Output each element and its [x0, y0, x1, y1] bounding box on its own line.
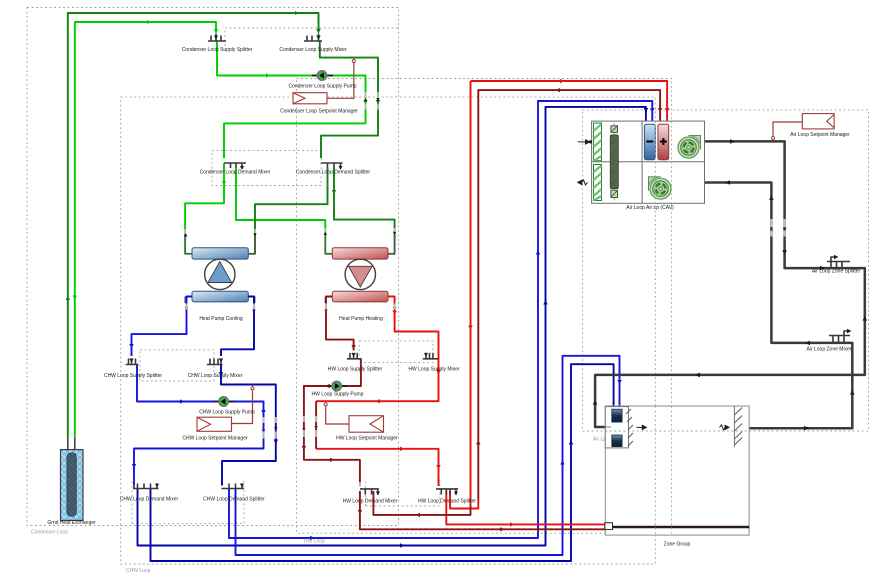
dashed overlays crossing white boxes [605, 121, 749, 535]
zone internal return arrow (zigzag) [720, 425, 730, 430]
hw demand inner dashed box [366, 479, 440, 506]
svg-text:Air Loop Air Lp (CAV): Air Loop Air Lp (CAV) [626, 205, 674, 211]
wire: condenser bright green splitter-pump-crossover-demand-mixer [217, 41, 366, 158]
zone reheat coil box [605, 523, 613, 530]
AHU heating coil [658, 124, 669, 160]
hw loop supply pump (flow right) [332, 381, 342, 391]
AHU inlet arrow [578, 140, 592, 144]
AHU cooling coil [644, 124, 655, 160]
wire: hw column B to demand splitter [315, 401, 317, 449]
condenser loop demand mixer glyph [224, 163, 246, 168]
hw loop setpoint manager connector [326, 405, 349, 424]
wire: hw demand mixer main down to zone coil return [360, 491, 605, 529]
air loop setpoint manager connector [773, 122, 802, 137]
CHW2 [304, 81, 667, 529]
svg-text:Condenser Loop Demand Splitter: Condenser Loop Demand Splitter [296, 170, 371, 176]
svg-text:Condenser Loop Supply Pump: Condenser Loop Supply Pump [288, 84, 356, 90]
svg-text:HW Loop Setpoint Manager: HW Loop Setpoint Manager [336, 436, 398, 442]
node gray segments on air ducts [771, 219, 784, 237]
svg-text:CHW Loop Supply Mixer: CHW Loop Supply Mixer [188, 373, 243, 379]
hw supply inner dashed box [359, 341, 433, 363]
hw loop supply mixer glyph [423, 353, 439, 359]
svg-text:Grnd Heat Exchanger: Grnd Heat Exchanger [47, 520, 96, 526]
heat pump cooling [185, 234, 255, 303]
AHU relief damper (bottom) [594, 165, 602, 201]
node arrows on crossover columns [184, 98, 786, 430]
AHU return fan (mirrored) [648, 177, 671, 200]
svg-text:Air Loop Zone Splitter: Air Loop Zone Splitter [812, 269, 861, 275]
wire: chw navy HP-cooling-right to supply mixer [221, 297, 254, 357]
chw loop demand splitter glyph [222, 484, 245, 489]
duct: supply from AHU to zone splitter to terminal [595, 141, 865, 427]
node gray segments on chw verticals [187, 304, 276, 439]
wire: condenser bright green supply-to-HX [75, 22, 216, 438]
condenser demand inner dashed box [212, 150, 321, 185]
wire: hw bright red HP-heating-right through supply mixer to crossover [316, 297, 438, 402]
svg-text:CHW Loop Supply Splitter: CHW Loop Supply Splitter [104, 373, 162, 379]
svg-text:HW Loop Supply Pump: HW Loop Supply Pump [312, 392, 364, 398]
duct: return from zone to zone mixer to AHU [705, 183, 853, 429]
heat pump heating [325, 234, 394, 303]
svg-text:Zone Group: Zone Group [664, 542, 691, 548]
wire: condenser demand splitter branch to HP-cooling right [248, 168, 327, 254]
wire: hw dark red HP-heating-left to supply splitter [326, 297, 354, 351]
zone hatch top-right corner [734, 408, 742, 446]
svg-text:Condenser Loop Demand Mixer: Condenser Loop Demand Mixer [200, 170, 271, 176]
svg-text:Heat Pump Heating: Heat Pump Heating [339, 316, 383, 322]
arrows on condenser wires [73, 20, 368, 300]
wire: hw return from AHU heating coil upper [471, 81, 668, 505]
arrows on chw wires [129, 108, 654, 540]
condenser loop supply mixer glyph [304, 34, 322, 42]
AHU supply fan [678, 135, 701, 158]
hw loop supply pump black segment [327, 385, 347, 387]
svg-text:Air Loop Setpoint Manager: Air Loop Setpoint Manager [790, 132, 850, 138]
air loop zone mixer glyph [829, 331, 850, 343]
wire: chw navy supply-mixer to demand splitter [221, 365, 276, 486]
wire: chw bright blue HP-cooling-left to supply splitter [132, 297, 193, 357]
hw loop dashed boundary [297, 79, 672, 534]
svg-text:HW Loop Demand Splitter: HW Loop Demand Splitter [418, 499, 476, 505]
air loop zone splitter glyph [827, 257, 850, 268]
chw loop setpoint manager box [197, 417, 232, 431]
hw loop setpoint manager box [349, 416, 384, 433]
wire: hw dark red pump line and column A to demand mixer [304, 359, 361, 486]
zone terminal unit (air terminal) [605, 407, 633, 448]
zone group box [605, 406, 749, 535]
condenser loop dashed boundary [27, 8, 399, 526]
hw loop demand mixer glyph [360, 489, 379, 495]
chw supply inner dashed box [140, 350, 214, 381]
chw loop setpoint manager connector [232, 389, 253, 424]
node gray segments on hw verticals [304, 304, 395, 487]
svg-text:Heat Pump Cooling: Heat Pump Cooling [199, 316, 243, 322]
wire: condenser demand mixer branch to HP-heating left [236, 168, 332, 254]
wire: condenser dark green supply-mixer-to-demand-splitter [320, 41, 378, 158]
chw loop supply splitter glyph [126, 359, 139, 365]
svg-text:Condenser Loop Supply Splitter: Condenser Loop Supply Splitter [182, 47, 253, 53]
chw demand inner dashed box [132, 479, 244, 524]
arrows on hw wires [302, 88, 663, 532]
hw loop demand splitter glyph [436, 489, 458, 495]
svg-text:HW Loop: HW Loop [304, 539, 325, 545]
svg-text:HW Loop Supply Splitter: HW Loop Supply Splitter [328, 367, 383, 373]
node gray segments on condenser crossover verticals [185, 92, 395, 234]
condenser loop supply splitter glyph [208, 34, 226, 42]
chw loop supply pump [219, 397, 229, 407]
hw loop supply splitter glyph [347, 353, 362, 359]
condenser loop setpoint manager connector [327, 62, 354, 99]
svg-text:HW Loop Demand Mixer: HW Loop Demand Mixer [343, 499, 398, 505]
svg-text:CHW Loop Demand Splitter: CHW Loop Demand Splitter [203, 497, 265, 503]
wire: condenser dark green HX-to-supply-mixer [68, 13, 319, 438]
condenser supply inner dashed box [225, 28, 399, 46]
ground heat exchanger [61, 450, 84, 521]
svg-text:CHW Loop Supply Pump: CHW Loop Supply Pump [199, 410, 255, 416]
air loop dashed boundary [583, 110, 869, 431]
arrows on ducts [593, 139, 867, 430]
svg-text:Condenser Loop: Condenser Loop [31, 530, 68, 536]
wire: chw demand splitter branch to AHU cooling coil [229, 101, 652, 538]
condenser loop supply pump black line segment [312, 75, 333, 77]
wire: chw return from AHU cooling coil to demand mixer [138, 107, 646, 546]
air loop setpoint manager box [802, 114, 834, 129]
chw loop supply pump black segment [214, 401, 234, 403]
svg-text:CHW Loop Setpoint Manager: CHW Loop Setpoint Manager [182, 436, 248, 442]
wire: chw bright blue splitter-pump-crossover to demand mixer [134, 365, 264, 486]
AHU relief arrow (zigzag) [578, 180, 588, 185]
wire: chw return from zone terminal coil to demand mixer [151, 364, 614, 561]
wire: hw return from AHU heating coil lower to demand mixer [373, 491, 470, 515]
wire: hw demand splitter branch to zone reheat coil [446, 491, 605, 524]
wire: hw demand splitter branch to AHU heating coil (riser) [450, 491, 478, 509]
chw loop supply mixer glyph [207, 359, 223, 365]
AHU (air handling unit) [592, 121, 705, 203]
CONDENSER2 [132, 101, 653, 561]
chw loop dashed boundary [121, 97, 656, 564]
DASHED2 [68, 13, 395, 438]
svg-text:Condenser Loop Setpoint Manage: Condenser Loop Setpoint Manager [280, 109, 358, 115]
zone return plenum line (black) [613, 526, 750, 529]
condenser loop supply pump [317, 71, 327, 81]
zone internal supply arrow [636, 425, 646, 429]
chw loop demand mixer glyph [133, 484, 159, 489]
AHU outdoor air damper (top) [594, 123, 602, 161]
svg-text:CHW Loop: CHW Loop [126, 568, 151, 574]
svg-text:CHW Loop Demand Mixer: CHW Loop Demand Mixer [120, 497, 179, 503]
wire: condenser demand splitter branch to HP-heating right [334, 168, 395, 254]
AHU heat recovery (ERV) [610, 123, 618, 201]
condenser loop demand splitter glyph [321, 163, 343, 168]
svg-text:HW Loop Supply Mixer: HW Loop Supply Mixer [408, 367, 459, 373]
svg-text:Condenser Loop Supply Mixer: Condenser Loop Supply Mixer [279, 47, 347, 53]
wire: condenser demand mixer branch to HP-cooling left [185, 163, 224, 254]
svg-text:Air Loop Zone Mixer: Air Loop Zone Mixer [806, 347, 851, 353]
wire: hw AHU heating coil supply top run [478, 90, 660, 500]
condenser loop setpoint manager box [293, 93, 327, 104]
wire: chw demand splitter branch to zone terminal coil [236, 356, 620, 555]
